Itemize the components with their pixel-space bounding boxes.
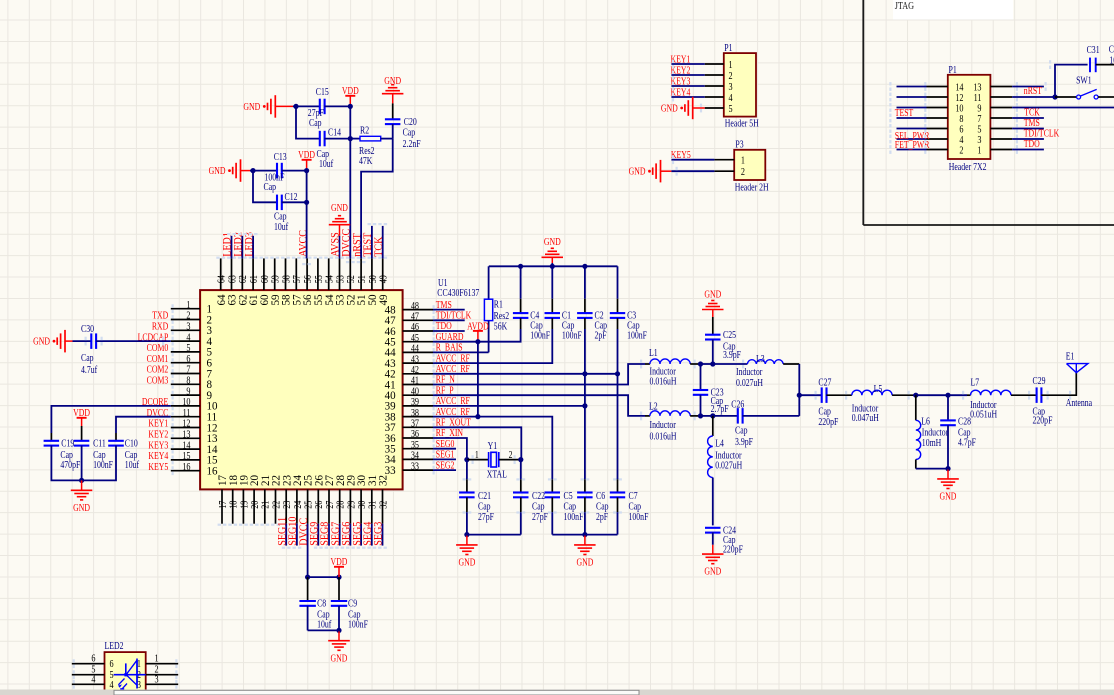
node junction VDD/C13 — [304, 168, 309, 173]
wire C27 to L5 — [826, 394, 851, 396]
svg-text:57: 57 — [292, 275, 303, 283]
svg-text:Cap: Cap — [403, 127, 416, 138]
svg-text:GND: GND — [331, 652, 348, 663]
svg-text:19: 19 — [239, 500, 250, 508]
svg-text:56: 56 — [303, 275, 314, 283]
svg-text:37: 37 — [411, 419, 419, 430]
svg-text:20: 20 — [250, 500, 261, 508]
svg-text:VDD: VDD — [298, 149, 315, 160]
svg-text:L3: L3 — [756, 353, 765, 364]
wire GND to C30 — [73, 340, 92, 342]
wire C3 bottom to pin42 row — [617, 329, 619, 374]
svg-text:100nF: 100nF — [627, 330, 647, 341]
U1 comment text CC430F6137 — [437, 287, 479, 298]
wire C21/C22 ground rail — [467, 534, 521, 536]
svg-text:Cap: Cap — [309, 117, 322, 128]
svg-text:30: 30 — [357, 500, 368, 508]
svg-text:32: 32 — [379, 500, 390, 508]
svg-text:13: 13 — [973, 83, 981, 94]
inductor L1 0.016uH — [645, 347, 699, 387]
svg-text:3: 3 — [977, 135, 981, 146]
wire L6 bottom to C28 bottom — [916, 468, 948, 470]
svg-text:13: 13 — [182, 430, 190, 441]
LED2 body — [105, 640, 146, 691]
wire SW1 to edge — [1098, 96, 1114, 98]
U1 bottom pins 17-32 with numbers — [217, 475, 390, 526]
ground GND (below C6) — [574, 536, 596, 568]
capacitor C9 100nF — [331, 577, 368, 630]
power VDD (bottom) — [331, 556, 348, 577]
capacitor C24 220pF — [705, 525, 743, 555]
wire C5-C7 ground rail — [552, 534, 617, 536]
wire output to C27 — [799, 394, 822, 396]
svg-text:C11: C11 — [93, 438, 106, 449]
svg-text:100nF: 100nF — [93, 459, 113, 470]
svg-text:4: 4 — [91, 674, 95, 685]
svg-text:Inductor: Inductor — [650, 419, 676, 430]
capacitor C11 100nF — [74, 438, 113, 471]
svg-text:470pF: 470pF — [60, 459, 80, 470]
node junction C1/GND top — [550, 264, 555, 269]
svg-text:C29: C29 — [1033, 375, 1046, 386]
svg-text:56K: 56K — [494, 320, 508, 331]
svg-text:L6: L6 — [921, 416, 930, 427]
svg-text:9: 9 — [977, 104, 981, 115]
svg-text:KEY1: KEY1 — [671, 54, 691, 65]
wire TMS stub — [433, 309, 465, 311]
svg-text:3: 3 — [155, 674, 159, 685]
wire AVDD vertical to AVCC_RF pin38 row — [477, 342, 479, 417]
right pin net labels — [436, 299, 472, 471]
wire down-left branch to C14 — [296, 106, 320, 138]
JTAG title block — [893, 0, 1013, 20]
node junction C2 top — [582, 264, 587, 269]
capacitor C31 — [1087, 44, 1114, 72]
capacitor C3 100nF — [610, 266, 647, 341]
wire GND to C13 — [250, 170, 277, 172]
inductor L4 0.027uH — [708, 416, 743, 526]
svg-text:12: 12 — [955, 93, 963, 104]
capacitor C8 10uf — [299, 577, 331, 630]
svg-text:L2: L2 — [649, 400, 658, 411]
svg-text:53: 53 — [336, 275, 347, 283]
wire nRST stub — [1012, 85, 1044, 96]
capacitor C27 220pF — [818, 376, 838, 427]
wire DVCC node rail — [308, 576, 339, 578]
antenna E1 — [1066, 351, 1092, 408]
wire AVCC_RF pin42 row — [433, 373, 618, 375]
wire C25 node to L3 — [713, 363, 748, 365]
svg-text:C7: C7 — [629, 490, 639, 501]
svg-text:AVCC_RF: AVCC_RF — [436, 406, 470, 417]
wire GND to C20 — [392, 103, 394, 119]
wires KEY1-KEY4 to P1 — [671, 54, 705, 98]
svg-text:P1: P1 — [724, 42, 732, 53]
wire LED1 pin 63 stub — [231, 236, 233, 259]
svg-text:C22: C22 — [532, 490, 545, 501]
wire C3 column down to C7 — [617, 374, 619, 480]
connector P1 Header 5H body — [724, 42, 759, 129]
svg-text:Cap: Cap — [596, 501, 609, 512]
capacitor C21 27pF — [459, 460, 494, 535]
svg-text:63: 63 — [228, 275, 239, 283]
svg-text:C28: C28 — [958, 416, 971, 427]
node junction C28 top — [945, 393, 950, 398]
capacitor C20 2.2nF — [385, 116, 421, 149]
svg-text:11: 11 — [974, 93, 982, 104]
svg-text:44: 44 — [411, 344, 419, 355]
inductor L7 0.051uH — [967, 377, 1037, 420]
svg-text:55: 55 — [314, 275, 325, 283]
svg-text:5: 5 — [977, 125, 981, 136]
svg-text:AVCC_RF: AVCC_RF — [436, 352, 470, 363]
ground GND (below C28) — [937, 470, 959, 502]
wire RF_P to L2 — [433, 395, 645, 416]
svg-text:Cap: Cap — [478, 501, 491, 512]
wire C2 column down to C6 — [584, 374, 586, 480]
svg-text:52: 52 — [346, 275, 357, 283]
svg-text:6: 6 — [959, 125, 963, 136]
wire C13 to VDD — [282, 170, 307, 172]
svg-text:1: 1 — [729, 60, 733, 71]
wire LED3 pin 61 stub — [252, 236, 254, 259]
wire row1 stub — [1012, 149, 1044, 151]
svg-text:C27: C27 — [818, 376, 831, 387]
svg-text:TDO: TDO — [436, 320, 452, 331]
svg-text:RF_XOUT: RF_XOUT — [436, 417, 472, 428]
svg-text:C5: C5 — [564, 490, 574, 501]
node junction C3/C7 column — [615, 371, 620, 376]
svg-text:COM0: COM0 — [147, 342, 169, 353]
ground GND (left of C15) — [243, 95, 293, 118]
svg-text:4: 4 — [729, 93, 733, 104]
svg-text:Cap: Cap — [274, 210, 287, 221]
ground GND (below C9) — [328, 631, 350, 663]
svg-text:Y1: Y1 — [488, 440, 498, 451]
svg-text:Cap: Cap — [264, 181, 277, 192]
svg-text:35: 35 — [411, 440, 419, 451]
wire VDD to C11 — [81, 426, 83, 441]
svg-text:25: 25 — [304, 500, 315, 508]
svg-text:2.2nF: 2.2nF — [403, 138, 421, 149]
wire SEG2 stub — [433, 469, 456, 471]
svg-text:48: 48 — [411, 301, 419, 312]
svg-text:2pF: 2pF — [596, 511, 608, 522]
wire TCK row9 — [1012, 107, 1114, 118]
resistor R1 56K — [484, 266, 509, 352]
capacitor C26 3.9pF — [731, 398, 753, 447]
capacitor C7 100nF — [610, 479, 649, 534]
svg-text:10: 10 — [1109, 55, 1114, 66]
svg-text:5: 5 — [729, 104, 733, 115]
svg-text:0.047uH: 0.047uH — [852, 412, 880, 423]
top pin net labels LED1-3 AVCC AVSS DVCC nRST TEST TCK — [221, 229, 385, 257]
inductor L6 10mH — [916, 395, 948, 468]
inductor L2 0.016uH — [645, 400, 699, 441]
svg-text:AVCC_RF: AVCC_RF — [436, 363, 470, 374]
wire C12 to AVCC rail — [282, 201, 307, 203]
node junction VDD/C9 top — [336, 575, 341, 580]
svg-text:TEST: TEST — [895, 107, 914, 118]
svg-text:32: 32 — [377, 475, 389, 486]
wire TCK pin 49 stub — [382, 226, 384, 259]
ground GND (left of C13) — [209, 159, 250, 182]
svg-text:31: 31 — [368, 500, 379, 508]
svg-text:3.9pF: 3.9pF — [723, 349, 741, 360]
svg-text:TDI/TCLK: TDI/TCLK — [436, 310, 472, 321]
svg-text:47: 47 — [411, 312, 419, 323]
svg-text:SEG1: SEG1 — [436, 449, 455, 460]
svg-text:4.7uf: 4.7uf — [81, 364, 97, 375]
wire KEY5 to P3 — [671, 149, 715, 160]
svg-text:100nF: 100nF — [530, 330, 550, 341]
svg-text:100nF: 100nF — [348, 619, 368, 630]
label FET_PWR — [895, 139, 930, 150]
svg-text:47K: 47K — [359, 155, 373, 166]
wire RF_N to L1 — [433, 364, 645, 385]
capacitor C29 220pF — [1033, 375, 1053, 426]
svg-text:100nF: 100nF — [564, 511, 584, 522]
svg-text:45: 45 — [411, 333, 419, 344]
svg-text:C21: C21 — [478, 490, 491, 501]
svg-text:14: 14 — [182, 440, 190, 451]
svg-text:VDD: VDD — [73, 407, 90, 418]
svg-text:2: 2 — [509, 449, 513, 460]
wire GND to C15 — [293, 105, 320, 107]
svg-text:2: 2 — [186, 311, 190, 322]
svg-text:5: 5 — [186, 343, 190, 354]
svg-text:COM3: COM3 — [147, 375, 169, 386]
wire SEG0 stub — [433, 448, 456, 450]
wire C28 node to L7 — [948, 394, 967, 396]
wire L6 node to C28 node — [913, 394, 948, 396]
wire C14 to DVCC rail — [325, 138, 351, 140]
svg-text:6: 6 — [110, 659, 114, 670]
svg-text:TDO: TDO — [1024, 138, 1040, 149]
svg-text:3.9pF: 3.9pF — [735, 436, 753, 447]
svg-text:Inductor: Inductor — [922, 426, 948, 437]
wire C30 to LCDCAP pin 4 — [96, 340, 171, 342]
svg-text:L7: L7 — [971, 377, 980, 388]
svg-text:C9: C9 — [348, 597, 358, 608]
svg-text:GND: GND — [629, 166, 646, 177]
svg-text:R1: R1 — [494, 299, 503, 310]
svg-text:P1: P1 — [949, 64, 957, 75]
node junction SW1/C31 — [1052, 94, 1057, 99]
svg-text:1: 1 — [186, 300, 190, 311]
svg-text:4: 4 — [110, 680, 114, 691]
svg-text:TXD: TXD — [152, 310, 168, 321]
LED2 diode symbol — [114, 659, 146, 693]
svg-text:2: 2 — [729, 71, 733, 82]
wire TDO row3 — [1012, 138, 1044, 149]
svg-text:Cap: Cap — [81, 352, 94, 363]
wire TMS row7 — [1012, 117, 1044, 128]
svg-text:C3: C3 — [1109, 43, 1114, 54]
wire L1 node to C25 node — [699, 363, 715, 365]
svg-text:Cap: Cap — [629, 501, 642, 512]
svg-text:KEY5: KEY5 — [148, 461, 168, 472]
svg-text:10uf: 10uf — [125, 459, 139, 470]
svg-text:220pF: 220pF — [1033, 415, 1053, 426]
capacitor C5 100nF — [545, 479, 584, 534]
svg-text:VDD: VDD — [342, 85, 359, 96]
wire R_BAIS to R1 — [433, 351, 489, 353]
capacitor C25 3.9pF — [705, 317, 741, 364]
ground GND (above AVSS pin 53) — [329, 202, 350, 236]
node junction L1/C23 — [698, 361, 703, 366]
svg-text:43: 43 — [411, 354, 419, 365]
svg-text:1: 1 — [741, 156, 745, 167]
wire output column vertical — [798, 364, 800, 416]
svg-text:L4: L4 — [715, 437, 724, 448]
svg-text:LED2: LED2 — [105, 640, 124, 651]
svg-text:0.027uH: 0.027uH — [736, 377, 764, 388]
wire RF_XOUT to Y1 pin2 — [433, 427, 521, 459]
svg-text:KEY3: KEY3 — [148, 439, 168, 450]
wire C11 bottom to GND rail — [81, 446, 83, 481]
wire RF_XIN to Y1 pin1 — [433, 438, 467, 460]
svg-text:TMS: TMS — [436, 299, 452, 310]
node junction GND rail xtal — [464, 532, 469, 537]
capacitor C12 — [274, 191, 297, 232]
ground GND (left of C30) — [33, 330, 72, 353]
wire DVCC rail down to pin 52 — [349, 106, 351, 258]
svg-text:Cap: Cap — [564, 501, 577, 512]
node junction at C13 left — [250, 168, 255, 173]
svg-text:7: 7 — [977, 114, 981, 125]
node junction C8/C9 GND — [336, 628, 341, 633]
U1 top pins 64-49 with numbers — [215, 257, 390, 306]
svg-text:GND: GND — [243, 101, 260, 112]
wire C20 to R2 node — [392, 124, 394, 139]
svg-text:11: 11 — [183, 408, 191, 419]
svg-text:GUARD: GUARD — [436, 331, 464, 342]
ground GND (below C11) — [71, 480, 93, 513]
svg-text:C20: C20 — [404, 116, 417, 127]
wire up to C31 — [1055, 65, 1088, 97]
svg-text:C8: C8 — [317, 597, 327, 608]
svg-text:SEG3: SEG3 — [372, 522, 385, 546]
svg-text:Inductor: Inductor — [736, 366, 762, 377]
node junction C25 bottom — [710, 361, 715, 366]
svg-text:GND: GND — [661, 103, 678, 114]
power AVDD — [467, 320, 489, 341]
svg-text:TDI/TCLK: TDI/TCLK — [1024, 128, 1060, 139]
svg-text:15: 15 — [182, 451, 190, 462]
svg-text:COM2: COM2 — [147, 364, 169, 375]
svg-text:C12: C12 — [285, 191, 298, 202]
wire TDI/TCLK stub — [433, 319, 465, 321]
svg-text:61: 61 — [249, 275, 260, 283]
U1 designator text — [438, 277, 448, 288]
svg-text:GND: GND — [209, 165, 226, 176]
svg-text:9: 9 — [186, 386, 190, 397]
capacitor C1 100nF — [545, 266, 582, 341]
capacitor C14 — [317, 126, 342, 169]
ground GND (P3 pin2) — [629, 160, 715, 183]
svg-text:14: 14 — [955, 83, 963, 94]
svg-text:17: 17 — [218, 500, 229, 508]
svg-text:C31: C31 — [1087, 44, 1100, 55]
inductor L5 0.047uH — [852, 383, 913, 423]
svg-text:46: 46 — [411, 322, 419, 333]
wire C26 to output column — [743, 415, 800, 417]
JTAG header pins with numbers — [897, 83, 1013, 157]
IC U1 CC430F6137 body — [200, 290, 403, 489]
svg-text:4.7pF: 4.7pF — [958, 437, 976, 448]
svg-text:Cap: Cap — [532, 501, 545, 512]
svg-text:P3: P3 — [735, 139, 744, 150]
svg-text:L5: L5 — [874, 383, 883, 394]
svg-text:18: 18 — [229, 500, 240, 508]
capacitor C28 4.7pF — [940, 395, 976, 468]
window scrollbar strip — [0, 690, 1114, 695]
wire DVCC pin25 down — [307, 524, 309, 577]
svg-text:33: 33 — [411, 461, 419, 472]
node junction C2/pin42 row — [582, 371, 587, 376]
ground GND (above C20) — [382, 75, 404, 104]
svg-text:10uf: 10uf — [317, 619, 331, 630]
svg-text:100nF: 100nF — [629, 511, 649, 522]
wire C19 bottom to GND rail — [51, 446, 116, 481]
svg-text:41: 41 — [411, 376, 419, 387]
node junction L6 top — [913, 393, 918, 398]
svg-text:10uf: 10uf — [319, 158, 333, 169]
svg-text:64: 64 — [217, 275, 228, 283]
svg-text:GND: GND — [940, 491, 957, 502]
node junction at C15 left — [293, 104, 298, 109]
wire AVCC_RF pin38 to C5 — [433, 417, 552, 480]
svg-text:AVCC_RF: AVCC_RF — [436, 395, 470, 406]
svg-text:34: 34 — [411, 451, 419, 462]
wire DVCC pin11 to C10 — [116, 417, 171, 433]
capacitor C6 2pF — [577, 479, 609, 534]
wire down-left branch to C12 — [253, 171, 277, 203]
node junction pin39/C6 column — [582, 403, 587, 408]
svg-text:0.016uH: 0.016uH — [650, 431, 678, 442]
svg-text:28: 28 — [336, 500, 347, 508]
capacitor C22 27pF — [513, 460, 548, 535]
svg-text:10: 10 — [955, 104, 963, 115]
ground GND (top rail) — [542, 236, 564, 266]
connector P3 Header 2H body — [734, 139, 769, 193]
capacitor C13 — [264, 151, 288, 193]
svg-text:R2: R2 — [360, 124, 369, 135]
svg-text:51: 51 — [357, 275, 368, 283]
wire AVDD decoupling top rail — [489, 265, 618, 267]
svg-text:C25: C25 — [723, 329, 736, 340]
svg-text:1: 1 — [475, 449, 479, 460]
svg-text:RF_P: RF_P — [436, 384, 454, 395]
svg-text:E1: E1 — [1066, 351, 1075, 362]
capacitor C32 partial at edge — [1109, 43, 1114, 65]
crystal Y1 XTAL — [464, 440, 523, 480]
svg-text:10: 10 — [182, 397, 190, 408]
svg-text:22: 22 — [272, 500, 283, 508]
capacitor C10 10uf — [108, 433, 139, 470]
svg-text:40: 40 — [411, 387, 419, 398]
svg-text:Header 2H: Header 2H — [735, 181, 769, 192]
svg-text:1: 1 — [977, 146, 981, 157]
svg-text:2: 2 — [741, 167, 745, 178]
svg-text:GND: GND — [544, 236, 561, 247]
svg-text:8: 8 — [186, 376, 190, 387]
svg-text:RXD: RXD — [152, 321, 169, 332]
wire row11 to SW1 — [1012, 96, 1055, 98]
svg-text:KEY1: KEY1 — [148, 418, 168, 429]
svg-text:GND: GND — [33, 336, 50, 347]
